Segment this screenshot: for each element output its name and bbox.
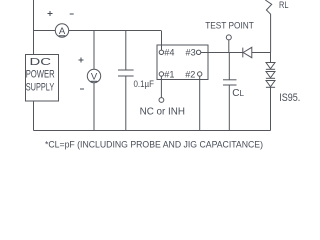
svg-text:CL: CL bbox=[232, 88, 244, 99]
svg-text:IS95.: IS95. bbox=[279, 92, 300, 104]
svg-text:A: A bbox=[59, 26, 66, 37]
svg-text:*CL=pF (INCLUDING PROBE AND JI: *CL=pF (INCLUDING PROBE AND JIG CAPACITA… bbox=[45, 140, 263, 151]
svg-text:#2: #2 bbox=[185, 69, 195, 80]
svg-text:NC or INH: NC or INH bbox=[140, 107, 185, 118]
svg-text:V: V bbox=[91, 71, 98, 82]
svg-text:DC: DC bbox=[30, 56, 52, 68]
svg-text:POWER: POWER bbox=[26, 69, 55, 81]
svg-text:#1: #1 bbox=[164, 69, 174, 80]
svg-text:#4: #4 bbox=[164, 47, 174, 58]
svg-text:RL: RL bbox=[279, 0, 289, 11]
svg-text:TEST POINT: TEST POINT bbox=[205, 20, 254, 31]
svg-text:0.1µF: 0.1µF bbox=[134, 79, 155, 90]
svg-text:#3: #3 bbox=[186, 47, 196, 58]
svg-text:SUPPLY: SUPPLY bbox=[26, 82, 55, 94]
